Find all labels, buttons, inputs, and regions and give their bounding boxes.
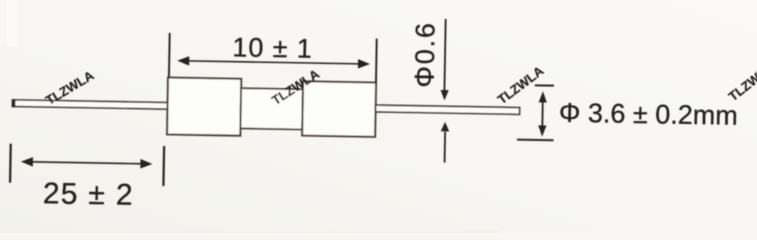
dimension 10±1 right extension line: [375, 39, 378, 83]
paper bottom edge shading: [0, 230, 500, 233]
dimension 10±1 arrow line with two arrowheads: [177, 56, 370, 69]
body right cap: [302, 81, 376, 137]
right lead wire: [376, 105, 520, 114]
svg-text:Φ0.6: Φ0.6: [409, 21, 440, 88]
svg-text:Φ 3.6 ± 0.2mm: Φ 3.6 ± 0.2mm: [559, 98, 738, 131]
lead diameter pointer arrow up: [440, 122, 449, 163]
svg-text:10 ± 1: 10 ± 1: [232, 32, 313, 63]
dimension 10±1 left extension line: [168, 33, 171, 77]
body middle section: [240, 88, 302, 129]
paper highlight strip top-left: [7, 0, 18, 46]
left lead wire: [12, 99, 168, 110]
body left cap: [167, 78, 241, 136]
svg-text:25 ± 2: 25 ± 2: [43, 177, 135, 212]
dimension 25±2 right extension line: [162, 146, 165, 186]
body diameter dim bottom tick: [517, 139, 553, 142]
body diameter dim top tick: [535, 84, 554, 86]
dimension 25±2 left extension line: [9, 144, 12, 183]
lead diameter pointer arrow down: [440, 19, 450, 101]
body diameter double-headed arrow: [538, 91, 547, 137]
dimension 25±2 arrow line with two arrowheads: [21, 157, 153, 169]
